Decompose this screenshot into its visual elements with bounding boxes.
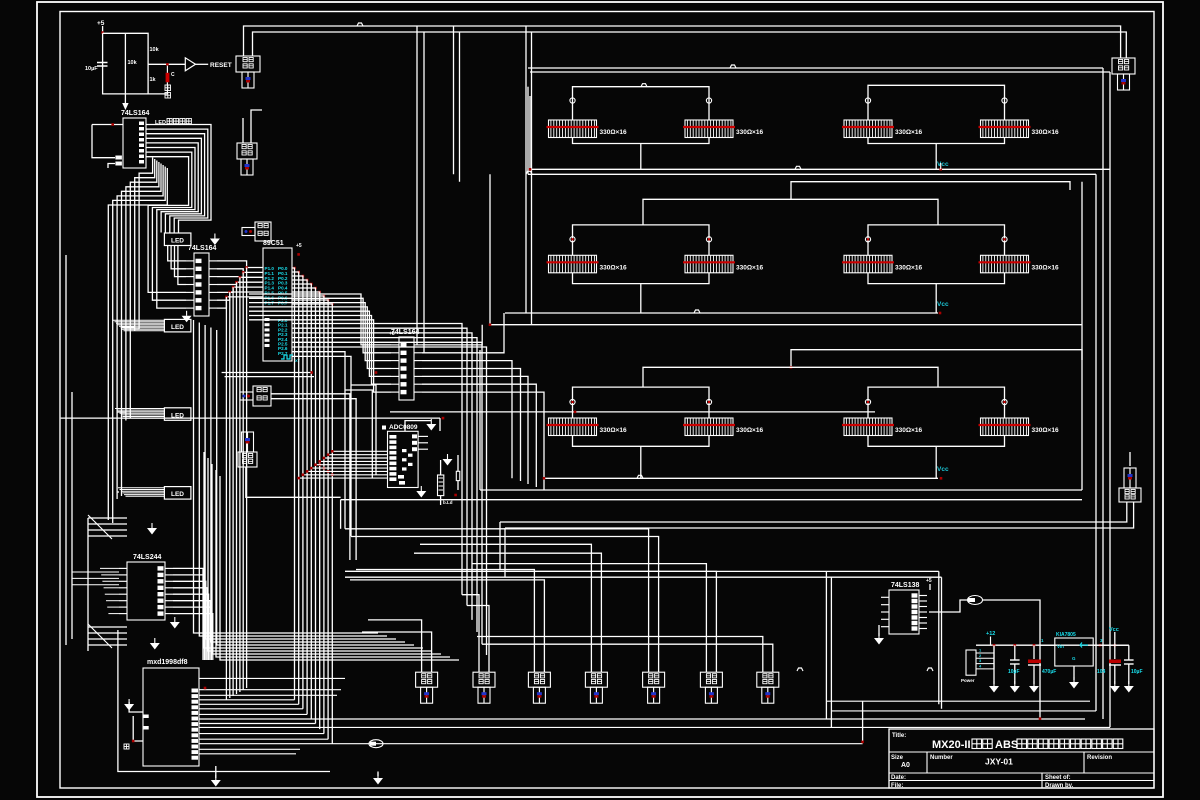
bus P2 wires right then down to bottom staircase [292,324,462,595]
wire loop group G3 [573,225,710,255]
svg-text:330Ω×16: 330Ω×16 [895,427,922,434]
ADC left pin label boxes [389,435,396,439]
wire loop group G2 [868,85,1005,120]
svg-text:Title:: Title: [892,733,906,739]
svg-text:Revision: Revision [1087,755,1112,761]
svg-text:330Ω×16: 330Ω×16 [895,264,922,271]
M5 rail connect down [340,500,342,529]
pin circle right [706,399,711,404]
74LS244 right pin wires going down [173,568,203,660]
U1 bottom-left pin boxes [115,156,122,160]
drop pair mid top [525,26,527,313]
74LS244 left pin feed horizontals [100,567,119,569]
resistor R2 vertical near ADC [438,475,444,496]
row3 bottom bus wire [544,477,938,479]
M9 riser wires [242,118,244,143]
row2 bottom bus wire [505,312,938,314]
svg-text:330Ω×16: 330Ω×16 [895,129,922,136]
U1 internal pin marks [139,122,144,126]
crossed wire fans above-left of 74LS244 [88,517,127,519]
LED2 feed bundle tight horizontals [113,319,164,321]
top bus wire B [253,32,1127,58]
RESET net label [196,63,209,65]
small box component near ADC [456,471,460,480]
right vertical rail x1110 [1109,72,1111,727]
svg-text:JXY-01: JXY-01 [985,757,1013,767]
bottom join wires G4 [868,273,1005,284]
bottom module riser wires and feed staircase [368,620,422,672]
resistor network RN1 330ohm x16 [547,120,627,138]
bus A: U1 outputs nested loop feeding LED1 [146,125,211,233]
svg-text:330Ω×16: 330Ω×16 [1032,129,1059,136]
row joining verticals left side [489,174,491,324]
LED indicator box LED2 [164,319,191,332]
row1 upper rail [528,173,1096,175]
module sensor module M5 [238,432,257,467]
bottom join wires G3 [573,273,710,284]
B1 subset branches right into ADC input bus [318,463,321,466]
svg-text:RESET: RESET [210,62,232,69]
svg-text:Vcc: Vcc [937,466,949,473]
svg-text:Date:: Date: [891,775,906,781]
ADC top right ground hook [405,421,431,432]
svg-text:74LS244: 74LS244 [133,554,162,561]
pin circle right [706,237,711,242]
long mid rails to right verticals [345,570,939,572]
regulator ground [1073,666,1075,680]
module output module M11 [473,672,495,703]
ADC inner small boxes [402,449,407,452]
wire loop group G5 [573,387,710,418]
resistor network RN8 330ohm x16 [979,255,1059,272]
ADC right pin boxes [412,434,417,438]
U1 left pin entry wires [92,124,123,126]
svg-text:10k: 10k [128,60,138,66]
U4 left pin feeds from upper-left staircase [249,294,391,345]
LED4 feed bundle [118,487,164,489]
svg-text:10k: 10k [150,47,160,53]
right vertical rail x1096 [1095,174,1097,711]
module output module M15 [700,672,722,703]
resistor R1 middle branch [124,33,126,94]
ADC feed verticals [345,390,372,478]
wire hop bumps [357,23,363,26]
row3 inner rail [643,367,938,387]
LED1 to U3 staircase wires [168,246,186,261]
voltage regulator U9 KIA7805 [1055,638,1093,666]
bottom mid arrow [377,772,379,777]
long vertical pair through middle from top wires [416,26,418,345]
buffer gate U8 [185,58,195,71]
244 long left feeds [72,571,119,573]
right loop verticals around 74LS138 [938,571,940,704]
power main rail [976,644,1129,646]
bus A leftover wires down past LED1 to U3 lower pins [148,233,186,293]
title block row lines [889,751,1154,753]
svg-text:10µF: 10µF [85,66,98,72]
M4 output wires [271,394,350,560]
LED3 feed bundle [115,408,164,410]
svg-text:104: 104 [1097,669,1106,675]
mid horizontals from left bundle [222,372,312,374]
IC U2 89C51 [263,240,292,361]
wire loop group G6 [868,387,1005,418]
resistor network RN12 330ohm x16 [979,418,1059,436]
U7 right pin boxes [192,689,199,693]
pin circle left [570,98,575,103]
bottom join wires G2 [868,138,1005,144]
capacitor C4 470uF electrolytic red [1033,645,1035,659]
fan join verticals at far left [65,255,67,645]
resistor network RN3 330ohm x16 [842,120,922,138]
pin circle left [865,237,870,242]
U4 right staircase wires feeding display rows [422,325,482,345]
U7 right pin long wires forming bottom rails [199,677,345,679]
svg-text:330Ω×16: 330Ω×16 [600,427,627,434]
svg-text:330Ω×16: 330Ω×16 [736,129,763,136]
svg-text:b.Ld: b.Ld [443,500,453,505]
resistor network RN7 330ohm x16 [842,255,922,272]
module motor module M6 [1112,58,1135,90]
ADC bottom pins [398,475,404,479]
LED2 feeds join staircase verticals [122,326,135,328]
U7 left stubs and crystal [129,702,143,712]
svg-text:330Ω×16: 330Ω×16 [600,264,627,271]
svg-text:C: C [171,72,175,78]
svg-text:330Ω×16: 330Ω×16 [1032,427,1059,434]
svg-text:330Ω×16: 330Ω×16 [600,129,627,136]
right vertical rail x1103 [1102,68,1104,719]
wire to buffer [148,63,185,65]
ADC left input bus 9 lines from central bundle [332,450,387,452]
svg-text:74LS164: 74LS164 [121,110,150,117]
bottom join wires G1 [573,138,710,144]
bottom join wires G5 [573,436,710,447]
bus B2 middle-left verticals running to bottom corner staircase [194,320,379,633]
svg-text:ABS: ABS [995,739,1018,751]
svg-text:74LS164: 74LS164 [391,329,420,336]
U7 left outer vertical wire [118,630,330,772]
LED indicator box LED1 [164,233,191,246]
svg-text:LED: LED [171,324,184,331]
module signal module M9 [237,143,257,175]
IC U3 74LS164 [186,245,217,316]
M7 down wires to left rails [500,502,1127,522]
pin circle right [706,98,711,103]
svg-text:Size: Size [891,755,904,761]
svg-text:330Ω×16: 330Ω×16 [1032,264,1059,271]
extra junction dots [529,168,532,171]
pin circle left [570,237,575,242]
svg-text:Power: Power [961,678,975,683]
IC U7 display driver [143,659,199,766]
row1 bottom bus wire [530,168,1110,170]
M7 riser wires to row3 [1129,452,1131,466]
module signal module M8 [236,56,260,88]
svg-text:74LS138: 74LS138 [891,582,920,589]
resistor network RN9 330ohm x16 [547,418,627,436]
module sensor module M4 [240,386,271,406]
U7 bottom ground [215,766,217,778]
top drop pair to row2 [453,26,455,174]
module output module M16 [757,672,779,703]
svg-text:Vcc: Vcc [937,301,949,308]
74LS138 ground [878,625,880,636]
wire loop group G4 [868,225,1005,255]
row2 long bottom rail [490,324,1082,326]
LED indicator box LED3 [164,408,191,421]
reset RC network rectangle [103,33,149,94]
svg-text:+12: +12 [986,631,995,637]
bottom rail riser right side [862,701,864,742]
row2 inner rail [643,199,938,225]
pin circle left [865,399,870,404]
P2 remaining short wires [292,352,345,529]
ADC area ground arrows [416,491,426,498]
module wheel module M7 [1119,468,1141,502]
svg-text:+5: +5 [389,331,395,337]
74LS138 output connector plug [968,596,983,605]
resistor network RN5 330ohm x16 [547,255,627,272]
svg-text:+5: +5 [296,243,302,249]
svg-text:mxd1998df8: mxd1998df8 [147,659,188,666]
svg-text:74LS164: 74LS164 [188,245,217,252]
right-side partial rails [826,700,1090,702]
junction dots on power rail [993,644,996,647]
svg-text:330Ω×16: 330Ω×16 [736,427,763,434]
module output module M12 [528,672,550,703]
pin circle left [570,399,575,404]
ground arrow below U3 [182,316,192,323]
pin circle right [1002,399,1007,404]
M5 down wire [246,467,341,497]
svg-text:XT: XT [295,358,301,363]
ground drop 1 [993,645,995,684]
module output module M13 [585,672,607,703]
svg-text:LED: LED [171,491,184,498]
capacitor C3 10uF [1014,645,1016,660]
resistor network RN11 330ohm x16 [842,418,922,436]
U3 output wires to MCU left pins with descending branch bundle [217,261,263,268]
svg-text:Vcc: Vcc [1109,627,1119,633]
svg-text:Vin: Vin [1057,644,1064,649]
svg-text:470µF: 470µF [1042,669,1056,675]
wire loop group G1 [573,87,710,120]
extra right-half long rail below row3 [341,499,1082,501]
MCU xtal pulse icon cyan [281,355,293,359]
row2 outer rail top [791,182,1070,200]
M7 drop pair continues down [499,522,501,570]
right vertical rail x1082 [1081,182,1083,490]
reset capacitor C2 red electrolytic [166,73,170,83]
B2 lower extra turns [204,452,423,648]
long rails above ADC [390,411,875,413]
LED indicator box LED4 [164,487,191,500]
ground arrow near LED1 [210,239,220,246]
svg-text:10µF: 10µF [1008,669,1020,675]
svg-text:Number: Number [930,755,953,761]
svg-text:Drawn by.: Drawn by. [1045,783,1074,789]
svg-text:Vcc: Vcc [937,161,949,168]
svg-text:KIA7805: KIA7805 [1056,632,1076,638]
second top rail pair [528,67,1103,69]
module output module M14 [643,672,665,703]
capacitor C5 0.1uF red [1114,645,1116,659]
pin circle right [1002,98,1007,103]
svg-text:File:: File: [891,783,903,789]
resistor network RN4 330ohm x16 [979,120,1059,138]
bottom left connector oval [369,740,383,748]
MCU lower-left small pin marks [265,318,270,321]
resistor network RN2 330ohm x16 [683,120,763,138]
svg-text:LED: LED [171,238,184,245]
IC U5 ADC0809 [388,431,419,487]
module keypad module M3 [242,222,271,241]
resistor network RN10 330ohm x16 [683,418,763,436]
ground arrows near 74LS244 [147,528,157,535]
svg-text:+5: +5 [97,20,105,27]
title block frame [889,729,1154,788]
top bus wire A [244,26,1121,58]
svg-text:MX20-II: MX20-II [932,739,971,751]
row3 outer rail top [791,350,1082,368]
IC U1 74LS164 [121,110,150,168]
bottom join wires G6 [868,436,1005,447]
svg-text:330Ω×16: 330Ω×16 [736,264,763,271]
svg-text:A0: A0 [901,762,910,769]
power collect vertical [993,645,995,669]
IC 74LS138 [881,582,927,634]
svg-text:1k: 1k [150,77,157,83]
capacitor C1 plates [97,62,108,64]
arrow to clock input [124,94,126,103]
svg-text:10µF: 10µF [1131,669,1143,675]
power connector J1 [966,650,976,675]
pin circle right [1002,237,1007,242]
pin circle left [865,98,870,103]
IC U6 74LS244 [119,554,173,620]
row3 long bottom rail [480,489,1082,491]
title block column lines [926,752,928,773]
svg-text:Sheet of:: Sheet of: [1045,775,1071,781]
svg-text:ADC0809: ADC0809 [389,424,418,431]
resistor network RN6 330ohm x16 [683,255,763,272]
IC U4 74LS164 [391,329,422,400]
module output module M10 [416,672,438,703]
bus B: left staircase bundle going down left side [108,168,167,520]
central bus B1 from MCU right side down to bottom rails [293,267,296,270]
capacitor C6 10uF right [1128,645,1130,660]
svg-text:G: G [1072,656,1076,661]
svg-text:+5: +5 [926,578,932,584]
